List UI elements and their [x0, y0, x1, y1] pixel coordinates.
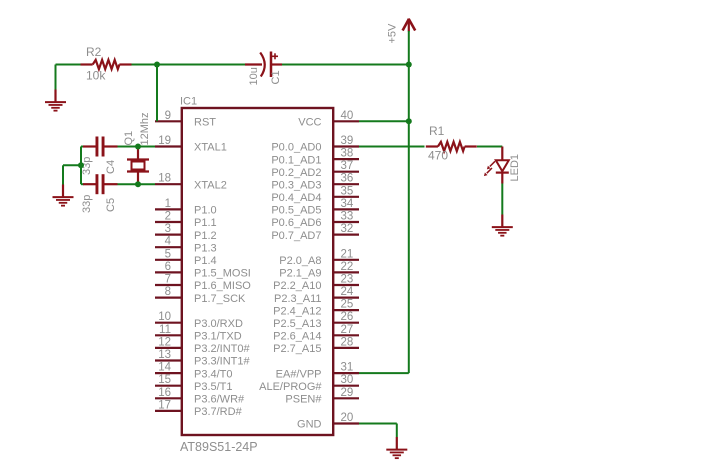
- +5V supply symbol: [403, 19, 416, 32]
- svg-text:P1.5_MOSI: P1.5_MOSI: [194, 268, 251, 280]
- svg-text:R1: R1: [429, 124, 445, 138]
- svg-text:P0.3_AD3: P0.3_AD3: [271, 179, 321, 191]
- pin 32 P0.7_AD7 stub: [332, 234, 359, 236]
- svg-text:14: 14: [158, 362, 171, 374]
- svg-text:AT89S51-24P: AT89S51-24P: [180, 440, 258, 454]
- junction node: +5V / top net: [406, 62, 412, 68]
- svg-text:P1.2: P1.2: [194, 230, 217, 242]
- svg-text:LED1: LED1: [509, 154, 521, 182]
- ground GND (below R2): [45, 90, 66, 111]
- junction node: RST net: [154, 62, 160, 68]
- svg-text:31: 31: [341, 362, 354, 374]
- svg-text:3: 3: [165, 223, 171, 235]
- pin 30 ALE/PROG# stub: [332, 385, 359, 387]
- svg-text:P2.0_A8: P2.0_A8: [279, 255, 321, 267]
- svg-text:P0.7_AD7: P0.7_AD7: [271, 230, 321, 242]
- pin 8 P1.7_SCK stub: [155, 297, 182, 299]
- svg-text:P1.7_SCK: P1.7_SCK: [194, 293, 246, 305]
- svg-text:R2: R2: [86, 45, 102, 59]
- LED1 emission arrows: [484, 161, 495, 176]
- svg-text:P0.4_AD4: P0.4_AD4: [271, 192, 321, 204]
- svg-text:18: 18: [158, 173, 171, 185]
- pin 2 P1.1 stub: [155, 221, 182, 223]
- svg-text:12Mhz: 12Mhz: [139, 112, 151, 145]
- wire: R2 to C1: [132, 64, 247, 66]
- svg-text:P1.3: P1.3: [194, 242, 217, 254]
- svg-text:32: 32: [341, 223, 354, 235]
- svg-text:2: 2: [165, 211, 171, 223]
- pin 28 P2.7_A15 stub: [332, 347, 359, 349]
- pin 11 P3.1/TXD stub: [155, 334, 182, 336]
- svg-text:P1.1: P1.1: [194, 217, 217, 229]
- svg-text:8: 8: [165, 286, 171, 298]
- junction node: XTAL1/crystal: [135, 144, 141, 150]
- capacitor C1 (polarized 10u): [245, 52, 282, 78]
- pin 18 XTAL2 stub: [155, 183, 182, 185]
- pin 26 P2.5_A13 stub: [332, 322, 359, 324]
- wire: XTAL1 net: [81, 146, 84, 148]
- svg-text:26: 26: [341, 311, 354, 323]
- wire: GND pin 20 out: [359, 423, 397, 425]
- pin 23 P2.2_A10 stub: [332, 284, 359, 286]
- svg-text:17: 17: [158, 399, 171, 411]
- pin 10 P3.0/RXD stub: [155, 322, 182, 324]
- pin 19 XTAL1 stub: [155, 145, 182, 147]
- svg-text:23: 23: [341, 274, 354, 286]
- svg-text:P0.6_AD6: P0.6_AD6: [271, 217, 321, 229]
- svg-text:38: 38: [341, 148, 354, 160]
- svg-text:10k: 10k: [86, 69, 106, 83]
- svg-text:P2.4_A12: P2.4_A12: [273, 305, 321, 317]
- wire: P0.0 pin 39 to R1: [359, 146, 425, 148]
- pin 40 VCC stub: [332, 120, 359, 122]
- pin 37 P0.2_AD2 stub: [332, 171, 359, 173]
- svg-text:25: 25: [341, 299, 354, 311]
- pin 17 P3.7/RD# stub: [155, 410, 182, 412]
- svg-text:XTAL2: XTAL2: [194, 179, 227, 191]
- svg-text:29: 29: [341, 387, 354, 399]
- pin 13 P3.3/INT1# stub: [155, 359, 182, 361]
- pin 7 P1.6_MISO stub: [155, 284, 182, 286]
- svg-text:P0.5_AD5: P0.5_AD5: [271, 205, 321, 217]
- svg-text:28: 28: [341, 336, 354, 348]
- svg-text:P3.0/RXD: P3.0/RXD: [194, 318, 243, 330]
- svg-text:P3.7/RD#: P3.7/RD#: [194, 406, 243, 418]
- pin 22 P2.1_A9 stub: [332, 271, 359, 273]
- svg-text:10: 10: [158, 311, 171, 323]
- pin 6 P1.5_MOSI stub: [155, 271, 182, 273]
- svg-text:RST: RST: [194, 117, 216, 129]
- pin 38 P0.1_AD1 stub: [332, 158, 359, 160]
- wire: ground tap horizontal: [63, 164, 81, 166]
- wire: +5V vertical main line: [408, 65, 410, 374]
- IC1 AT89S51 body: [182, 108, 333, 435]
- pin 9 RST stub: [155, 120, 182, 122]
- svg-text:13: 13: [158, 349, 171, 361]
- svg-text:P0.1_AD1: P0.1_AD1: [271, 154, 321, 166]
- svg-text:P3.3/INT1#: P3.3/INT1#: [194, 356, 251, 368]
- svg-text:P1.6_MISO: P1.6_MISO: [194, 280, 251, 292]
- svg-text:XTAL1: XTAL1: [194, 142, 227, 154]
- wire: R1 to LED1 corner: [477, 146, 502, 148]
- ground GND (below pin 20): [386, 437, 407, 458]
- pin 5 P1.4 stub: [155, 259, 182, 261]
- svg-text:C4: C4: [105, 160, 117, 174]
- svg-text:Q1: Q1: [123, 131, 135, 146]
- svg-text:9: 9: [165, 110, 171, 122]
- svg-text:IC1: IC1: [180, 96, 197, 108]
- svg-text:37: 37: [341, 160, 354, 172]
- wire: VCC pin 40 to +5V line: [359, 120, 409, 122]
- svg-text:7: 7: [165, 274, 171, 286]
- svg-text:C1: C1: [270, 70, 282, 84]
- pin 39 P0.0_AD0 stub: [332, 145, 359, 147]
- svg-text:PSEN#: PSEN#: [285, 394, 322, 406]
- svg-text:C5: C5: [105, 198, 117, 212]
- ground GND (below LED1): [492, 215, 513, 236]
- pin 12 P3.2/INT0# stub: [155, 347, 182, 349]
- pin 1 P1.0 stub: [155, 208, 182, 210]
- svg-text:10u: 10u: [248, 67, 260, 85]
- svg-text:33p: 33p: [81, 195, 93, 213]
- wire: GND drop: [396, 424, 398, 438]
- wire: riser down to RST pin 9: [156, 65, 158, 122]
- wire: XTAL2 net: [81, 183, 84, 185]
- svg-text:19: 19: [158, 135, 171, 147]
- svg-text:27: 27: [341, 324, 354, 336]
- pin 21 P2.0_A8 stub: [332, 259, 359, 261]
- svg-text:P2.6_A14: P2.6_A14: [273, 331, 321, 343]
- svg-text:39: 39: [341, 135, 354, 147]
- svg-text:P1.0: P1.0: [194, 205, 217, 217]
- wire: +5V line to EA#/VPP pin 31: [359, 372, 409, 374]
- svg-text:40: 40: [341, 110, 354, 122]
- svg-text:21: 21: [341, 248, 354, 260]
- svg-text:P3.4/T0: P3.4/T0: [194, 368, 233, 380]
- svg-text:30: 30: [341, 374, 354, 386]
- pin 27 P2.6_A14 stub: [332, 334, 359, 336]
- svg-text:+5V: +5V: [387, 23, 399, 44]
- svg-text:P3.1/TXD: P3.1/TXD: [194, 331, 242, 343]
- pin 36 P0.3_AD3 stub: [332, 183, 359, 185]
- svg-text:34: 34: [341, 198, 354, 210]
- svg-text:22: 22: [341, 261, 354, 273]
- junction node: cap bus / ground tap: [78, 162, 84, 168]
- svg-text:24: 24: [341, 286, 354, 298]
- pin 29 PSEN# stub: [332, 397, 359, 399]
- svg-text:4: 4: [165, 236, 172, 248]
- pin 35 P0.4_AD4 stub: [332, 196, 359, 198]
- svg-text:33: 33: [341, 211, 354, 223]
- pin 16 P3.6/WR# stub: [155, 397, 182, 399]
- junction node: XTAL2/crystal: [135, 181, 141, 187]
- svg-text:EA#/VPP: EA#/VPP: [276, 368, 322, 380]
- pin 14 P3.4/T0 stub: [155, 372, 182, 374]
- pin 34 P0.5_AD5 stub: [332, 208, 359, 210]
- svg-text:P2.2_A10: P2.2_A10: [273, 280, 321, 292]
- svg-text:5: 5: [165, 248, 171, 260]
- svg-text:P2.3_A11: P2.3_A11: [274, 293, 322, 305]
- pin 24 P2.3_A11 stub: [332, 297, 359, 299]
- svg-text:36: 36: [341, 173, 354, 185]
- wire: ground tap drop: [62, 165, 64, 184]
- junction node: VCC: [406, 118, 412, 124]
- svg-text:P2.7_A15: P2.7_A15: [273, 343, 321, 355]
- svg-text:P2.1_A9: P2.1_A9: [279, 268, 321, 280]
- svg-text:GND: GND: [297, 419, 322, 431]
- svg-text:12: 12: [158, 336, 171, 348]
- LED1 diode: [496, 147, 509, 184]
- pin 31 EA#/VPP stub: [332, 372, 359, 374]
- svg-text:VCC: VCC: [298, 117, 321, 129]
- svg-text:P3.6/WR#: P3.6/WR#: [194, 394, 245, 406]
- pin 15 P3.5/T1 stub: [155, 385, 182, 387]
- crystal Q1 12Mhz: [127, 147, 149, 185]
- svg-text:20: 20: [341, 412, 354, 424]
- svg-text:P2.5_A13: P2.5_A13: [273, 318, 321, 330]
- wire: left drop to ground below reset net: [55, 65, 57, 90]
- wire: reset net top horizontal: [56, 64, 82, 66]
- svg-text:470: 470: [428, 149, 448, 163]
- wire: C1 to +5V line: [282, 64, 409, 66]
- svg-text:P3.5/T1: P3.5/T1: [194, 381, 233, 393]
- svg-text:11: 11: [159, 324, 171, 336]
- svg-text:16: 16: [158, 387, 171, 399]
- wire: +5V arrow to top net: [408, 31, 410, 65]
- pin 4 P1.3 stub: [155, 246, 182, 248]
- svg-text:P0.2_AD2: P0.2_AD2: [271, 167, 321, 179]
- svg-text:15: 15: [158, 374, 171, 386]
- pin 33 P0.6_AD6 stub: [332, 221, 359, 223]
- pin 20 GND stub: [332, 422, 359, 424]
- svg-text:ALE/PROG#: ALE/PROG#: [259, 381, 322, 393]
- resistor R1: [426, 142, 477, 151]
- ground GND (crystal caps): [53, 185, 74, 206]
- svg-text:P3.2/INT0#: P3.2/INT0#: [194, 343, 251, 355]
- pin 3 P1.2 stub: [155, 234, 182, 236]
- svg-text:6: 6: [165, 261, 171, 273]
- wire: LED1 cathode down: [501, 184, 503, 215]
- pin 25 P2.4_A12 stub: [332, 309, 359, 311]
- svg-text:1: 1: [165, 198, 171, 210]
- svg-text:P1.4: P1.4: [194, 255, 217, 267]
- wire: cap bus vertical: [80, 147, 82, 185]
- capacitor C4 33p: [83, 137, 118, 157]
- resistor R2: [81, 60, 132, 69]
- svg-text:35: 35: [341, 185, 354, 197]
- svg-text:P0.0_AD0: P0.0_AD0: [271, 142, 321, 154]
- capacitor C5 33p: [83, 174, 118, 194]
